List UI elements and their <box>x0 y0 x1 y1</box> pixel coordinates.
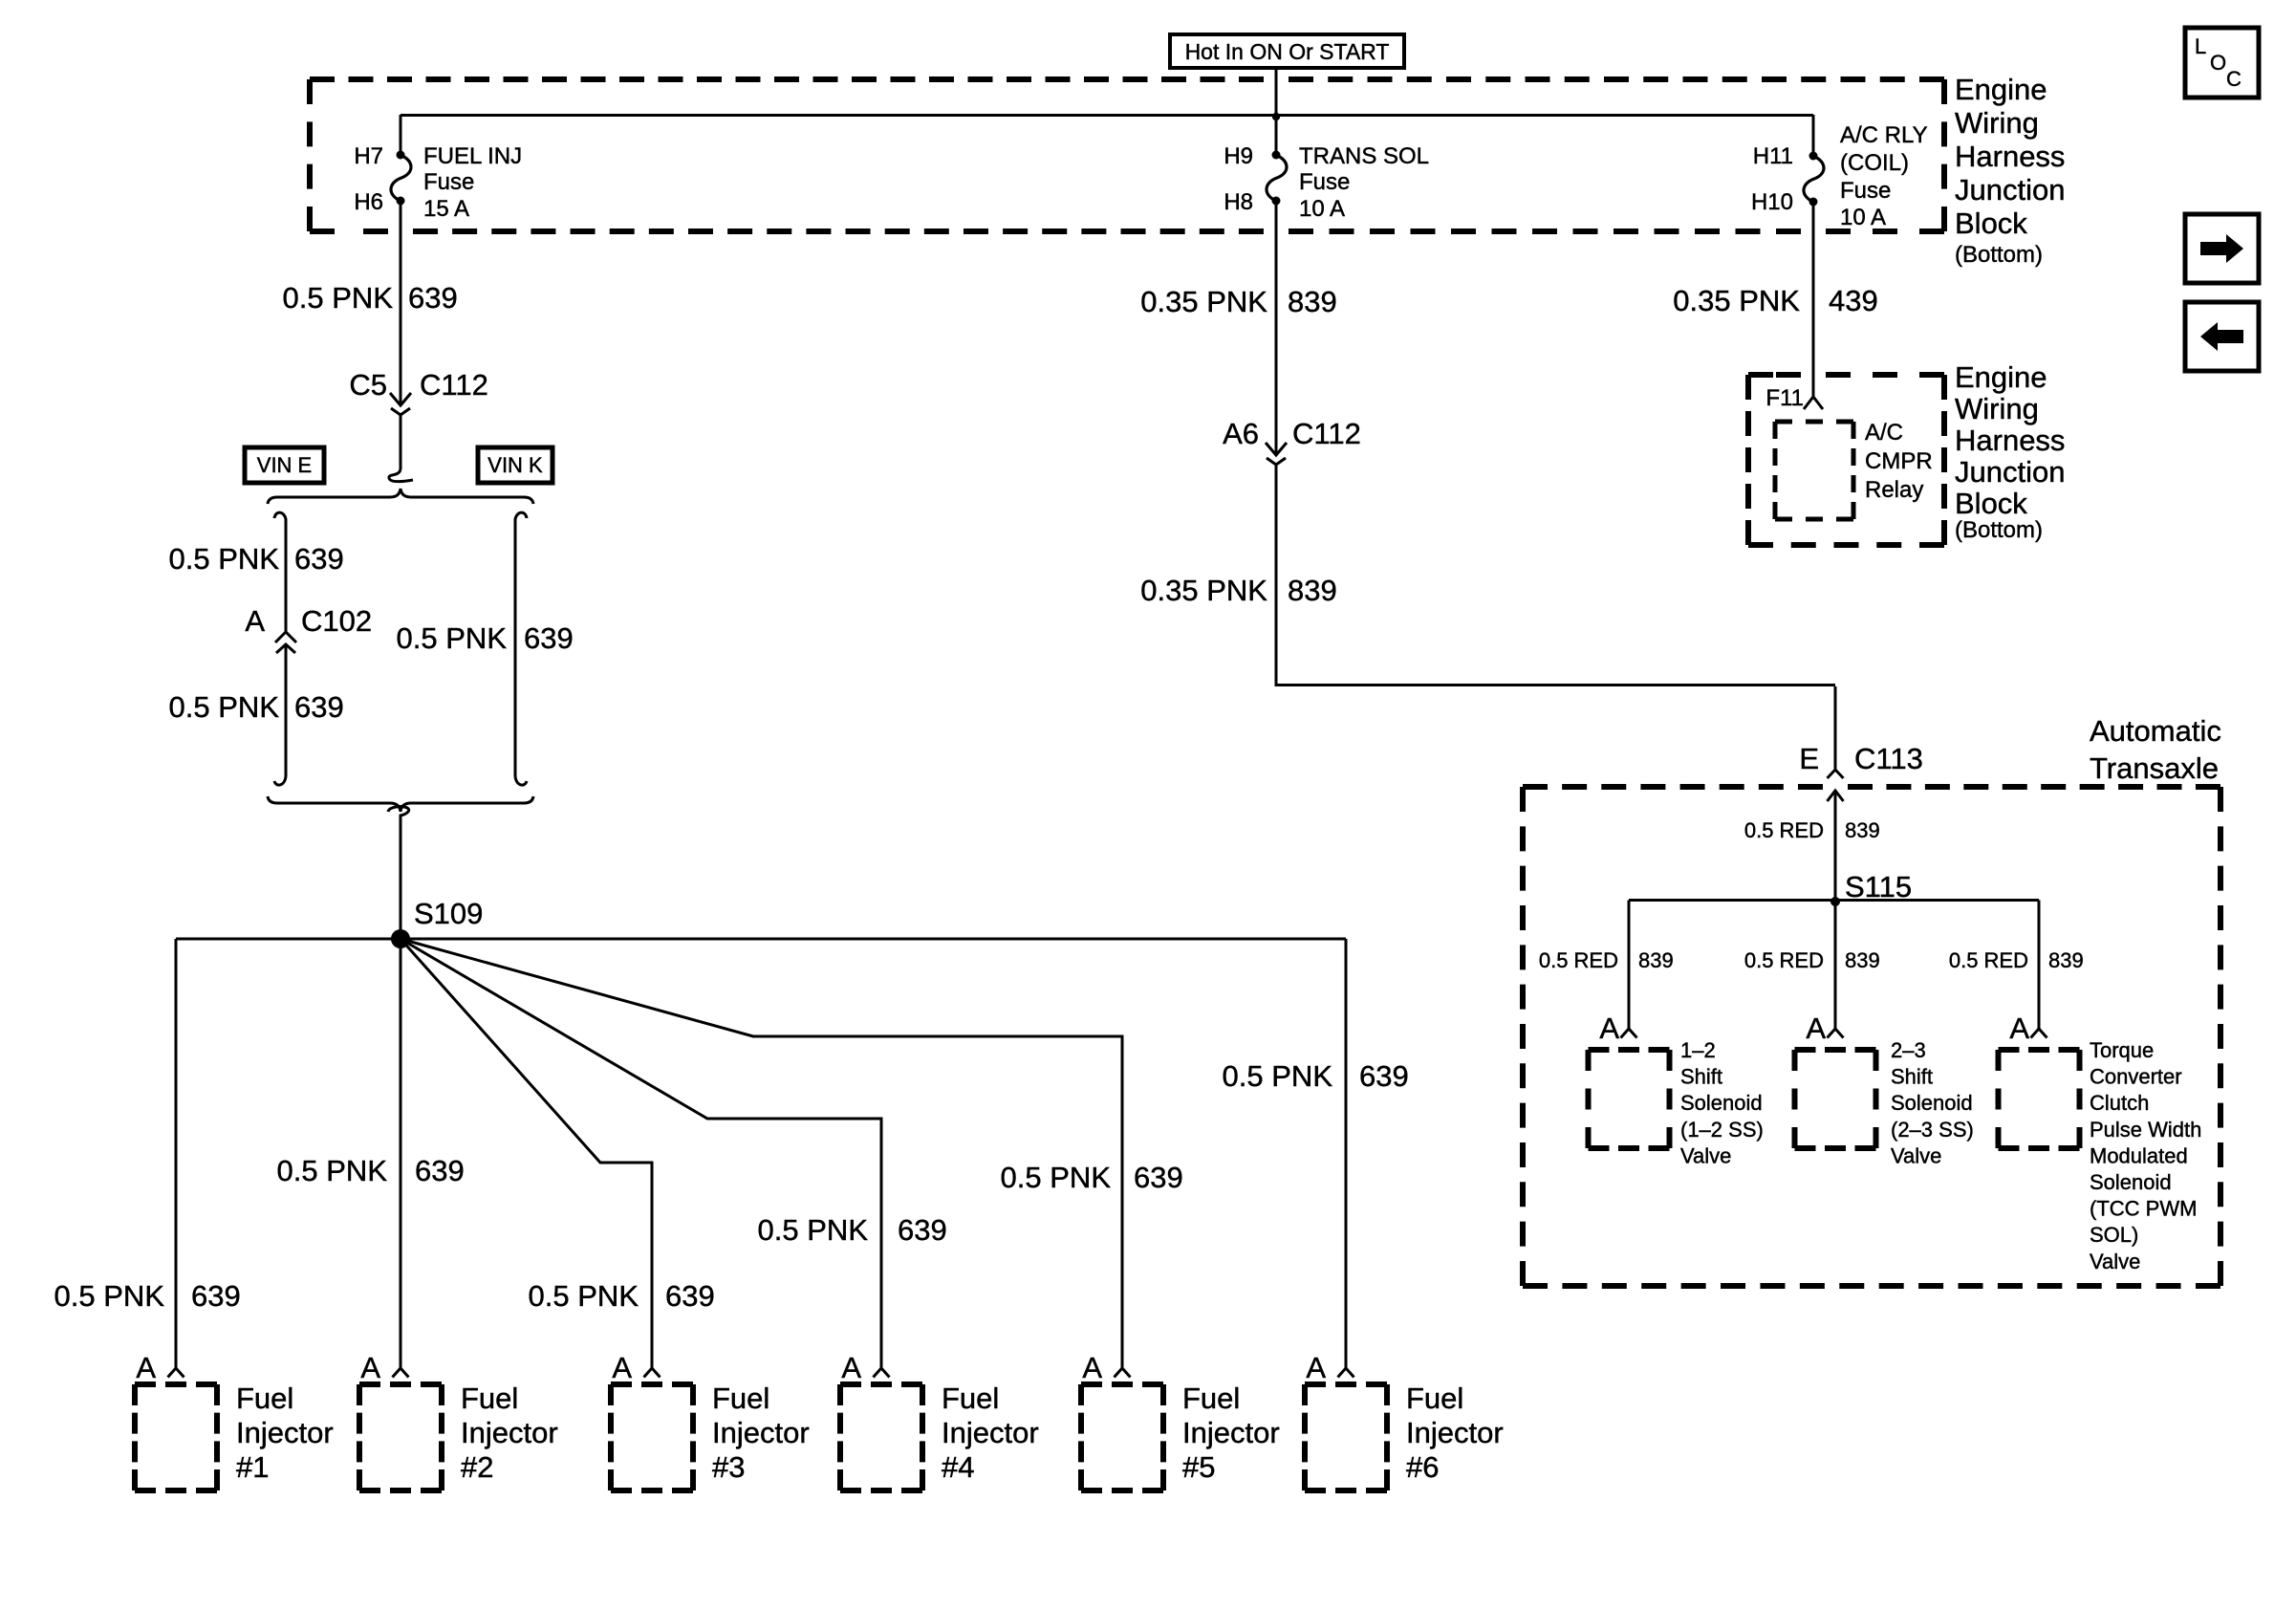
svg-text:Injector: Injector <box>236 1416 334 1449</box>
svg-text:H6: H6 <box>354 189 383 215</box>
svg-text:Engine: Engine <box>1955 73 2047 106</box>
svg-text:CMPR: CMPR <box>1865 448 1933 474</box>
svg-text:(TCC PWM: (TCC PWM <box>2090 1197 2197 1221</box>
svg-text:S109: S109 <box>414 897 483 930</box>
svg-text:0.35 PNK: 0.35 PNK <box>1140 574 1267 607</box>
svg-text:A/C: A/C <box>1865 420 1903 446</box>
svg-text:VIN E: VIN E <box>257 453 312 477</box>
svg-text:Engine: Engine <box>1955 360 2047 394</box>
svg-text:O: O <box>2210 51 2226 75</box>
svg-text:Fuel: Fuel <box>236 1382 293 1415</box>
svg-text:H9: H9 <box>1224 143 1253 169</box>
svg-text:839: 839 <box>1288 574 1337 607</box>
svg-text:SOL): SOL) <box>2090 1223 2138 1247</box>
svg-text:0.5 PNK: 0.5 PNK <box>283 281 394 315</box>
svg-text:#6: #6 <box>1406 1450 1439 1484</box>
svg-text:C113: C113 <box>1854 742 1923 775</box>
svg-text:639: 639 <box>524 621 574 655</box>
svg-text:Torque: Torque <box>2090 1038 2154 1062</box>
svg-text:H10: H10 <box>1751 189 1793 215</box>
svg-text:#3: #3 <box>712 1450 745 1484</box>
svg-text:839: 839 <box>2048 948 2084 972</box>
svg-text:C: C <box>2226 67 2242 91</box>
svg-text:A/C RLY: A/C RLY <box>1840 122 1928 148</box>
svg-text:Fuel: Fuel <box>1182 1382 1240 1415</box>
svg-text:Injector: Injector <box>461 1416 558 1449</box>
svg-text:639: 639 <box>665 1279 715 1313</box>
svg-text:A6: A6 <box>1223 417 1259 450</box>
svg-text:0.5 PNK: 0.5 PNK <box>54 1279 165 1313</box>
svg-text:639: 639 <box>1134 1161 1183 1194</box>
svg-text:A: A <box>2009 1012 2029 1045</box>
svg-text:Solenoid: Solenoid <box>1891 1091 1973 1115</box>
svg-text:0.5 RED: 0.5 RED <box>1949 948 2028 972</box>
svg-text:0.5 PNK: 0.5 PNK <box>169 690 280 724</box>
svg-text:H11: H11 <box>1753 143 1793 169</box>
svg-text:H8: H8 <box>1224 189 1253 215</box>
svg-text:0.5 PNK: 0.5 PNK <box>529 1279 639 1313</box>
svg-text:639: 639 <box>294 690 344 724</box>
svg-text:839: 839 <box>1845 948 1880 972</box>
svg-text:Converter: Converter <box>2090 1065 2182 1089</box>
svg-text:A: A <box>841 1351 861 1384</box>
svg-text:0.5 RED: 0.5 RED <box>1744 818 1824 842</box>
svg-text:Fuel: Fuel <box>942 1382 999 1415</box>
svg-text:0.5 PNK: 0.5 PNK <box>758 1213 869 1247</box>
svg-text:Junction: Junction <box>1955 455 2065 489</box>
svg-text:Injector: Injector <box>1406 1416 1504 1449</box>
svg-text:Fuel: Fuel <box>461 1382 518 1415</box>
svg-text:C102: C102 <box>301 604 372 638</box>
svg-text:Solenoid: Solenoid <box>2090 1170 2172 1194</box>
svg-text:Modulated: Modulated <box>2090 1143 2188 1167</box>
svg-text:A: A <box>1806 1012 1826 1045</box>
svg-text:10 A: 10 A <box>1840 205 1886 230</box>
svg-text:#2: #2 <box>461 1450 493 1484</box>
svg-text:639: 639 <box>1359 1059 1409 1093</box>
svg-text:639: 639 <box>415 1154 465 1187</box>
svg-text:439: 439 <box>1829 284 1878 317</box>
svg-text:H7: H7 <box>354 143 383 169</box>
svg-text:Pulse Width: Pulse Width <box>2090 1118 2201 1142</box>
svg-text:0.5 PNK: 0.5 PNK <box>397 621 508 655</box>
svg-text:#5: #5 <box>1182 1450 1215 1484</box>
svg-text:Wiring: Wiring <box>1955 392 2039 425</box>
svg-text:0.5 PNK: 0.5 PNK <box>1223 1059 1333 1093</box>
svg-text:(Bottom): (Bottom) <box>1955 242 2043 268</box>
svg-text:(COIL): (COIL) <box>1840 150 1909 176</box>
svg-text:A: A <box>1082 1351 1102 1384</box>
svg-text:Shift: Shift <box>1891 1065 1933 1089</box>
svg-text:Automatic: Automatic <box>2090 714 2221 748</box>
svg-text:C112: C112 <box>1292 417 1361 450</box>
svg-text:A: A <box>245 604 265 638</box>
svg-text:Wiring: Wiring <box>1955 106 2039 140</box>
svg-text:839: 839 <box>1288 285 1337 318</box>
svg-text:Block: Block <box>1955 207 2027 240</box>
svg-text:Junction: Junction <box>1955 173 2065 207</box>
svg-text:0.5 PNK: 0.5 PNK <box>1001 1161 1112 1194</box>
svg-text:L: L <box>2195 34 2206 58</box>
svg-text:A: A <box>1599 1012 1619 1045</box>
svg-text:Valve: Valve <box>2090 1250 2140 1273</box>
svg-text:Harness: Harness <box>1955 424 2065 457</box>
svg-text:S115: S115 <box>1845 870 1912 903</box>
svg-text:#1: #1 <box>236 1450 269 1484</box>
svg-text:F11: F11 <box>1765 385 1804 411</box>
svg-text:Injector: Injector <box>942 1416 1039 1449</box>
svg-text:0.35 PNK: 0.35 PNK <box>1140 285 1267 318</box>
svg-text:15 A: 15 A <box>423 196 469 222</box>
svg-text:1–2: 1–2 <box>1680 1038 1716 1062</box>
svg-text:Fuse: Fuse <box>423 169 474 195</box>
svg-text:Solenoid: Solenoid <box>1680 1091 1763 1115</box>
svg-text:A: A <box>1306 1351 1326 1384</box>
svg-text:Block: Block <box>1955 487 2027 520</box>
svg-text:639: 639 <box>294 542 344 576</box>
svg-text:(Bottom): (Bottom) <box>1955 517 2043 543</box>
svg-text:Shift: Shift <box>1680 1065 1722 1089</box>
svg-text:C5: C5 <box>349 368 387 402</box>
svg-text:Fuel: Fuel <box>1406 1382 1463 1415</box>
svg-text:0.5 PNK: 0.5 PNK <box>277 1154 388 1187</box>
svg-text:FUEL INJ: FUEL INJ <box>423 143 522 169</box>
svg-text:Fuse: Fuse <box>1299 169 1350 195</box>
svg-text:#4: #4 <box>942 1450 974 1484</box>
svg-text:839: 839 <box>1845 818 1880 842</box>
svg-text:639: 639 <box>408 281 458 315</box>
svg-text:A: A <box>136 1351 156 1384</box>
svg-text:(1–2 SS): (1–2 SS) <box>1680 1118 1764 1142</box>
svg-text:0.5 RED: 0.5 RED <box>1539 948 1618 972</box>
svg-text:639: 639 <box>898 1213 947 1247</box>
svg-text:Relay: Relay <box>1865 477 1923 503</box>
svg-text:639: 639 <box>191 1279 241 1313</box>
svg-text:0.5 PNK: 0.5 PNK <box>169 542 280 576</box>
svg-text:A: A <box>612 1351 632 1384</box>
svg-text:Transaxle: Transaxle <box>2090 751 2219 785</box>
svg-text:Fuse: Fuse <box>1840 178 1891 204</box>
svg-text:(2–3 SS): (2–3 SS) <box>1891 1118 1974 1142</box>
svg-text:Hot In ON Or START: Hot In ON Or START <box>1185 39 1390 64</box>
svg-text:Harness: Harness <box>1955 140 2065 173</box>
svg-text:A: A <box>360 1351 380 1384</box>
svg-text:0.5 RED: 0.5 RED <box>1744 948 1824 972</box>
svg-text:839: 839 <box>1638 948 1674 972</box>
svg-text:0.35 PNK: 0.35 PNK <box>1673 284 1800 317</box>
svg-text:E: E <box>1799 742 1819 775</box>
svg-text:C112: C112 <box>420 368 488 402</box>
svg-text:2–3: 2–3 <box>1891 1038 1926 1062</box>
svg-text:Injector: Injector <box>1182 1416 1280 1449</box>
svg-text:Valve: Valve <box>1891 1143 1941 1167</box>
svg-text:Clutch: Clutch <box>2090 1091 2149 1115</box>
svg-text:TRANS SOL: TRANS SOL <box>1299 143 1429 169</box>
svg-text:VIN K: VIN K <box>487 453 543 477</box>
svg-text:Valve: Valve <box>1680 1143 1731 1167</box>
svg-text:Injector: Injector <box>712 1416 810 1449</box>
svg-text:Fuel: Fuel <box>712 1382 769 1415</box>
svg-text:10 A: 10 A <box>1299 196 1345 222</box>
